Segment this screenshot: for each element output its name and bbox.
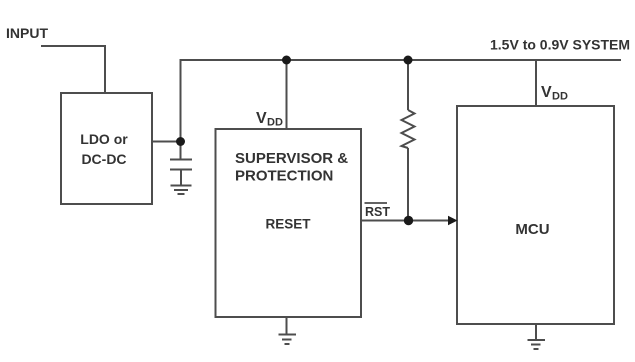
svg-text:1.5V to 0.9V SYSTEM: 1.5V to 0.9V SYSTEM bbox=[490, 37, 630, 53]
svg-text:V: V bbox=[541, 84, 552, 101]
svg-text:MCU: MCU bbox=[515, 221, 549, 238]
svg-text:RST: RST bbox=[365, 205, 390, 219]
svg-text:INPUT: INPUT bbox=[6, 25, 48, 41]
svg-text:PROTECTION: PROTECTION bbox=[235, 168, 333, 185]
svg-text:SUPERVISOR &: SUPERVISOR & bbox=[235, 150, 348, 167]
svg-text:RESET: RESET bbox=[265, 217, 311, 232]
svg-text:V: V bbox=[256, 110, 267, 127]
svg-text:DD: DD bbox=[552, 91, 568, 103]
svg-text:LDO or: LDO or bbox=[80, 131, 128, 147]
svg-text:DC-DC: DC-DC bbox=[81, 151, 126, 167]
svg-text:DD: DD bbox=[267, 117, 283, 129]
